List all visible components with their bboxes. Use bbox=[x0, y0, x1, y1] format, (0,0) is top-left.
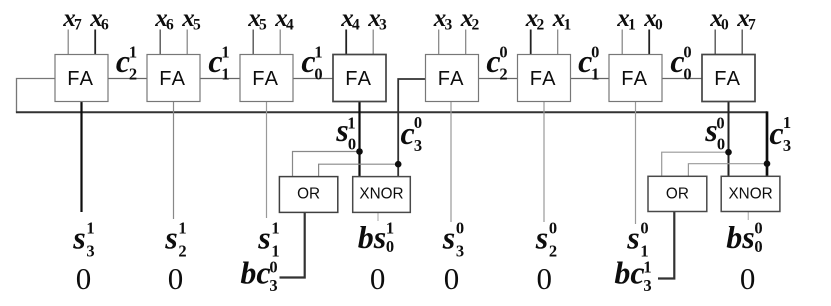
svg-text:0: 0 bbox=[591, 43, 599, 62]
wire sum s3^1 from FA1 bottom bbox=[80, 102, 82, 213]
svg-text:5: 5 bbox=[259, 17, 267, 34]
svg-text:FA: FA bbox=[345, 68, 372, 90]
input stub x2 into FA5 bbox=[465, 30, 467, 55]
wire carry c3^1 from FA1 carry-out left side down to bus bbox=[17, 79, 56, 113]
svg-text:1: 1 bbox=[564, 17, 572, 34]
wire middle OR output down-left to bc3^0 bbox=[280, 212, 305, 277]
svg-text:FA: FA bbox=[67, 68, 94, 90]
or-gate OR middle bbox=[279, 177, 337, 213]
svg-text:0: 0 bbox=[536, 261, 552, 296]
wire branch from node s0^0 to right OR input bbox=[662, 152, 729, 177]
wire sum s2^1 from FA2 bottom bbox=[173, 102, 175, 220]
svg-text:s: s bbox=[257, 220, 270, 256]
svg-text:0: 0 bbox=[269, 258, 277, 277]
svg-text:0: 0 bbox=[640, 219, 648, 238]
wire branch from node c3^1 to right OR input bbox=[688, 164, 767, 177]
input stub x5 into FA2 bbox=[186, 30, 188, 55]
svg-text:OR: OR bbox=[666, 186, 689, 203]
full adder FA3 bbox=[240, 55, 293, 102]
svg-text:FA: FA bbox=[252, 68, 279, 90]
svg-text:3: 3 bbox=[379, 17, 387, 34]
svg-text:3: 3 bbox=[783, 136, 791, 155]
svg-text:0: 0 bbox=[754, 237, 762, 256]
svg-text:0: 0 bbox=[386, 237, 394, 256]
svg-text:0: 0 bbox=[740, 261, 756, 296]
svg-text:0: 0 bbox=[655, 17, 663, 34]
svg-text:1: 1 bbox=[129, 43, 137, 62]
svg-text:FA: FA bbox=[714, 68, 741, 90]
svg-text:s: s bbox=[535, 220, 548, 256]
svg-text:3: 3 bbox=[269, 276, 277, 295]
wire sum s1^0 from FA7 bottom bbox=[635, 102, 637, 225]
svg-text:bc: bc bbox=[614, 255, 644, 291]
node c3^0 junction dot bbox=[395, 161, 402, 168]
node s0^0 junction dot bbox=[725, 149, 732, 156]
svg-text:0: 0 bbox=[499, 43, 507, 62]
svg-text:0: 0 bbox=[721, 17, 729, 34]
full adder FA6 bbox=[518, 55, 571, 102]
carry wire c2^1 FA1-FA2 bbox=[107, 78, 148, 80]
svg-text:0: 0 bbox=[456, 219, 464, 238]
svg-text:c: c bbox=[769, 115, 783, 151]
wire long horizontal carry bus c3^1 across bottom of FA row bbox=[16, 111, 767, 113]
wire branch from node s0^1 to middle OR input bbox=[293, 152, 360, 178]
full adder FA1 bbox=[55, 55, 108, 102]
svg-text:2: 2 bbox=[499, 65, 507, 84]
svg-text:0: 0 bbox=[683, 65, 691, 84]
svg-text:4: 4 bbox=[352, 17, 360, 34]
full adder FA7 bbox=[609, 55, 662, 102]
svg-text:0: 0 bbox=[717, 135, 725, 154]
full adder FA2 bbox=[147, 55, 200, 102]
svg-text:0: 0 bbox=[314, 65, 322, 84]
svg-text:3: 3 bbox=[445, 17, 453, 34]
svg-text:0: 0 bbox=[754, 219, 762, 238]
svg-text:1: 1 bbox=[386, 219, 394, 238]
wire sum s0^0 from FA8 bottom into right XNOR bbox=[728, 102, 730, 177]
svg-text:3: 3 bbox=[414, 136, 422, 155]
xnor-gate XNOR middle bbox=[353, 177, 411, 213]
svg-text:c: c bbox=[400, 115, 414, 151]
input stub x0 into FA8 bbox=[714, 30, 716, 55]
svg-text:0: 0 bbox=[716, 114, 724, 133]
wire middle XNOR output stub bs0^1 bbox=[377, 212, 379, 221]
svg-text:1: 1 bbox=[628, 17, 636, 34]
carry wire c0^1 FA3-FA4 bbox=[292, 78, 334, 80]
svg-text:s: s bbox=[72, 220, 85, 256]
svg-text:5: 5 bbox=[193, 17, 201, 34]
svg-text:7: 7 bbox=[748, 17, 756, 34]
svg-text:0: 0 bbox=[414, 113, 422, 132]
input stub x7 into FA1 bbox=[67, 30, 69, 55]
svg-text:1: 1 bbox=[783, 113, 791, 132]
svg-text:FA: FA bbox=[159, 68, 186, 90]
svg-text:1: 1 bbox=[591, 65, 599, 84]
svg-text:4: 4 bbox=[286, 17, 294, 34]
svg-text:0: 0 bbox=[370, 261, 386, 296]
input stub x1 into FA6 bbox=[557, 30, 559, 55]
svg-text:1: 1 bbox=[643, 258, 651, 277]
wire sum s3^0 from FA5 bottom bbox=[450, 102, 452, 223]
svg-text:FA: FA bbox=[621, 68, 648, 90]
full adder FA4 bbox=[333, 55, 386, 102]
svg-text:OR: OR bbox=[297, 186, 320, 203]
svg-text:XNOR: XNOR bbox=[728, 186, 772, 203]
svg-text:6: 6 bbox=[166, 17, 174, 34]
svg-text:bs: bs bbox=[358, 219, 386, 255]
input stub x7 into FA8 bbox=[741, 30, 743, 55]
xnor-gate XNOR right bbox=[721, 176, 780, 211]
svg-text:s: s bbox=[626, 220, 639, 256]
svg-text:0: 0 bbox=[683, 43, 691, 62]
svg-text:3: 3 bbox=[86, 242, 94, 261]
svg-text:6: 6 bbox=[101, 17, 109, 34]
svg-text:1: 1 bbox=[314, 43, 322, 62]
svg-text:2: 2 bbox=[537, 17, 545, 34]
svg-text:0: 0 bbox=[444, 261, 460, 296]
svg-text:1: 1 bbox=[221, 65, 229, 84]
svg-text:FA: FA bbox=[438, 68, 465, 90]
svg-text:s: s bbox=[442, 220, 455, 256]
svg-text:FA: FA bbox=[530, 68, 557, 90]
svg-text:0: 0 bbox=[168, 261, 184, 296]
svg-text:0: 0 bbox=[348, 135, 356, 154]
svg-text:2: 2 bbox=[549, 242, 557, 261]
input stub x3 into FA4 bbox=[372, 30, 374, 55]
input stub x1 into FA7 bbox=[621, 30, 623, 55]
svg-text:0: 0 bbox=[549, 219, 557, 238]
svg-text:2: 2 bbox=[178, 242, 186, 261]
wire carry c3^1 vertical drop into right XNOR input bbox=[766, 111, 769, 176]
input stub x0 into FA7 bbox=[648, 30, 650, 55]
svg-text:1: 1 bbox=[221, 43, 229, 62]
input stub x5 into FA3 bbox=[252, 30, 254, 55]
wire sum s1^1 from FA3 bottom bbox=[266, 102, 268, 219]
svg-text:XNOR: XNOR bbox=[359, 186, 403, 203]
input stub x6 into FA2 bbox=[159, 30, 161, 55]
carry wire c2^0 FA5-FA6 bbox=[478, 78, 519, 80]
svg-text:2: 2 bbox=[129, 65, 137, 84]
full adder FA5 bbox=[426, 55, 479, 102]
svg-text:s: s bbox=[164, 220, 177, 256]
wire right OR output down-left to bc3^1 bbox=[658, 212, 674, 279]
wire right XNOR output stub bs0^0 bbox=[747, 212, 749, 221]
svg-text:1: 1 bbox=[271, 219, 279, 238]
full adder FA8 bbox=[702, 55, 755, 102]
node c3^1 junction dot bbox=[764, 160, 771, 167]
carry wire c0^0 FA7-FA8 bbox=[661, 78, 703, 80]
input stub x4 into FA3 bbox=[279, 30, 281, 55]
svg-text:0: 0 bbox=[76, 261, 92, 296]
wire sum s2^0 from FA6 bottom bbox=[543, 102, 545, 223]
node s0^1 junction dot bbox=[356, 148, 363, 155]
wire carry c3^0 from FA5 carry-out elbow down to middle XNOR bbox=[398, 79, 426, 177]
carry wire c1^1 FA2-FA3 bbox=[199, 78, 241, 80]
svg-text:1: 1 bbox=[86, 219, 94, 238]
carry wire c1^0 FA6-FA7 bbox=[570, 78, 611, 80]
svg-text:bc: bc bbox=[240, 255, 270, 291]
input stub x2 into FA6 bbox=[530, 30, 532, 55]
svg-text:3: 3 bbox=[456, 242, 464, 261]
svg-text:3: 3 bbox=[643, 276, 651, 295]
input stub x3 into FA5 bbox=[438, 30, 440, 55]
svg-text:1: 1 bbox=[178, 219, 186, 238]
wire branch from node c3^0 to middle OR input bbox=[319, 164, 399, 177]
svg-text:2: 2 bbox=[472, 17, 480, 34]
input stub x6 into FA1 bbox=[94, 30, 96, 55]
wire sum s0^1 from FA4 bottom into middle XNOR bbox=[358, 102, 360, 177]
svg-text:7: 7 bbox=[74, 17, 82, 34]
svg-text:1: 1 bbox=[347, 114, 355, 133]
svg-text:bs: bs bbox=[726, 219, 754, 255]
or-gate OR right bbox=[648, 176, 707, 211]
input stub x4 into FA4 bbox=[345, 30, 347, 55]
